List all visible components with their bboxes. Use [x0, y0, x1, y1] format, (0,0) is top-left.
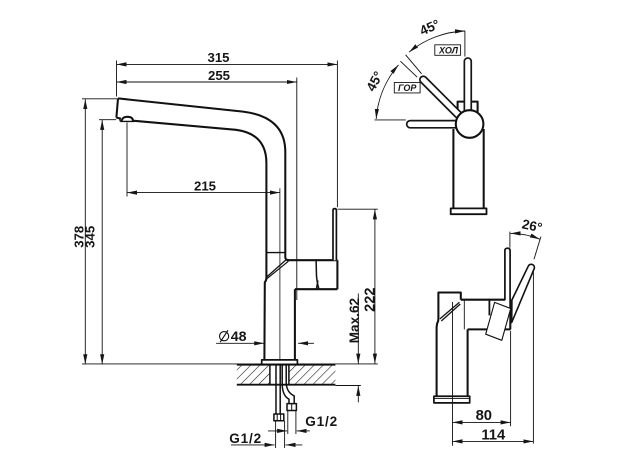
spout left end cap — [116, 98, 118, 117]
dimension 255 — [117, 78, 297, 301]
base plate (top view) — [451, 208, 487, 214]
svg-text:ХОЛ: ХОЛ — [438, 46, 459, 56]
column front — [467, 329, 469, 396]
handle blade upright — [505, 248, 510, 300]
countertop hatched band right part — [289, 365, 335, 385]
body column (top view) — [453, 129, 483, 208]
housing hidden edge — [463, 300, 465, 330]
dimension Max.62 — [357, 294, 359, 403]
left hose nut G1/2 — [274, 414, 284, 421]
countertop hatched band left part — [237, 365, 270, 385]
svg-text:G1/2: G1/2 — [229, 431, 262, 446]
svg-text:215: 215 — [194, 178, 216, 193]
dimension 378 — [82, 99, 118, 364]
svg-text:222: 222 — [363, 288, 379, 312]
aerator — [116, 118, 134, 122]
handle blade tilted — [512, 264, 535, 322]
right hose nut G1/2 — [287, 404, 296, 411]
faucet body circle — [456, 110, 484, 138]
body column — [294, 289, 296, 360]
dimension 222 — [338, 209, 378, 363]
spout outer outline — [118, 98, 289, 260]
extension line along spout top — [375, 119, 406, 121]
label box GOR — [394, 82, 420, 93]
dimension 215 — [127, 123, 280, 197]
handle lever blade — [333, 209, 336, 261]
dimension dia 48 — [216, 342, 314, 344]
base plate — [262, 360, 298, 365]
svg-text:Max.62: Max.62 — [347, 297, 362, 343]
arc 45 right (cold) — [409, 31, 465, 52]
countertop edges — [237, 365, 336, 385]
svg-text:114: 114 — [481, 428, 506, 444]
bevel sliver front — [440, 302, 460, 321]
svg-text:315: 315 — [207, 50, 229, 65]
svg-text:48: 48 — [231, 329, 247, 345]
countertop hole edges — [270, 365, 289, 385]
dimension G1/2 left — [231, 421, 302, 448]
handle vertical (cold position) — [463, 61, 472, 112]
handle housing — [287, 260, 338, 289]
extension lines along diagonal handle — [400, 55, 421, 77]
svg-text:45°: 45° — [417, 16, 442, 38]
svg-text:G1/2: G1/2 — [305, 414, 338, 429]
cartridge housing (top view) — [458, 102, 478, 130]
extension line above vertical handle — [464, 31, 466, 57]
left supply hose — [276, 365, 280, 414]
26 deg vertical reference — [509, 232, 511, 248]
svg-text:ГОР: ГОР — [398, 83, 417, 93]
right supply hose — [282, 365, 294, 404]
svg-text:345: 345 — [82, 226, 97, 248]
svg-text:255: 255 — [208, 68, 230, 83]
housing front — [461, 300, 511, 330]
dimension 315 — [117, 61, 338, 208]
dimension G1/2 right — [268, 411, 310, 435]
tube seam line — [266, 252, 285, 254]
arc 45 left (hot) — [376, 65, 398, 119]
label box XOL — [435, 45, 461, 56]
base front — [434, 396, 470, 403]
svg-text:80: 80 — [476, 408, 492, 424]
centerline of column — [279, 188, 281, 360]
spout column top rectangle — [437, 293, 461, 397]
26 deg arc — [511, 233, 540, 239]
handle cover tilted — [486, 302, 511, 340]
dimension 114 — [453, 271, 534, 444]
housing seam front — [488, 300, 490, 316]
countertop underside extension line — [335, 385, 360, 387]
handle diagonal (hot position) — [423, 80, 458, 115]
spout (top view) — [410, 120, 457, 129]
bevel sliver lines — [266, 259, 288, 279]
26 deg diagonal reference — [534, 237, 541, 260]
dimension 80 — [453, 302, 511, 446]
svg-text:26°: 26° — [521, 216, 544, 235]
dimension 345 — [99, 120, 116, 365]
spout inner bottom edge — [116, 118, 266, 360]
housing seam — [316, 260, 319, 289]
countertop surface extension line — [82, 363, 378, 365]
